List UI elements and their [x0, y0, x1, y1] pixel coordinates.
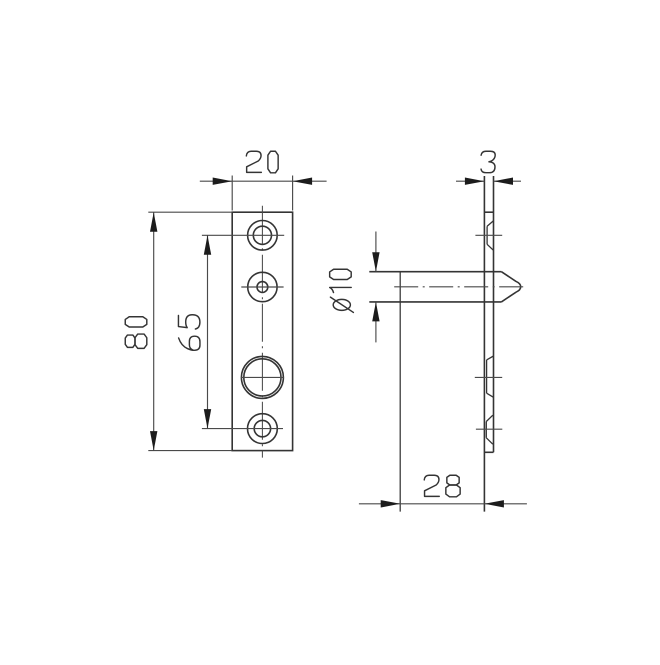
front view vertical centerline: [261, 206, 263, 458]
side H4 lower angled line: [486, 438, 493, 444]
hole H1 horizontal crosshair: [202, 234, 284, 236]
side H4 crosshair: [476, 428, 502, 430]
side view plate right edge: [493, 176, 495, 452]
dim 65 arrow top: [204, 235, 211, 255]
dim 65 dimension line: [207, 235, 209, 428]
dim d10 line lower: [375, 302, 377, 343]
dim text 80 (rotated): [125, 317, 147, 349]
dim 20 extension line right: [292, 176, 294, 211]
hole H3 large middle (outer circle): [241, 356, 283, 398]
dim 3 arrow left: [465, 178, 485, 185]
dim 20 arrow left: [213, 178, 233, 185]
front view plate outline: [232, 212, 292, 450]
dim d10 line upper: [375, 232, 377, 272]
hole H2 inner circle: [257, 282, 268, 293]
dim 28 dimension line: [359, 503, 527, 505]
dim 65 extension line top: [202, 234, 232, 236]
hole H4 countersunk bottom (outer circle): [248, 414, 278, 444]
hole H4 inner circle: [254, 420, 270, 436]
dim 20 arrow right: [293, 178, 313, 185]
dim 20 extension line left: [231, 176, 233, 211]
hole H1 countersunk top (outer circle): [248, 221, 278, 251]
hole H1 inner circle: [253, 226, 271, 244]
dim text 28: [424, 475, 460, 497]
side H1 crosshair: [475, 234, 502, 236]
dim 3 dimension line right tail: [494, 180, 522, 182]
side H4 bore line: [485, 422, 487, 438]
side H3 lower angled line: [487, 393, 494, 397]
dim text Ø10 (rotated): [330, 269, 354, 312]
dim text 3: [481, 151, 495, 172]
side H3 bore line: [486, 360, 488, 393]
dim 80 extension line bottom: [148, 450, 232, 452]
side view plate top edge: [484, 211, 493, 213]
side view plate left edge: [483, 176, 485, 512]
hole H4 horizontal crosshair: [202, 428, 283, 430]
dim 65 arrow bottom: [204, 409, 211, 429]
pin bullet nose: [501, 272, 520, 302]
hole H2 horizontal crosshair: [241, 286, 283, 288]
side H3 crosshair: [475, 376, 502, 378]
dim 28 arrow left: [381, 500, 401, 507]
dim 80 arrow top: [150, 212, 157, 232]
side H1 countersink lower angled line: [487, 244, 493, 250]
dim text 20: [246, 151, 278, 173]
dim 20 dimension line: [200, 180, 327, 182]
side view plate bottom edge: [484, 451, 493, 453]
side H3 upper angled line: [487, 356, 494, 360]
dim d10 arrow lower: [372, 302, 379, 322]
dim 3 arrow right: [494, 178, 514, 185]
hole H3 horizontal crosshair: [241, 376, 283, 378]
side H4 upper angled line: [486, 415, 493, 421]
hole H3 inner circle: [244, 359, 281, 396]
dim 80 extension line top: [148, 211, 232, 213]
pin left end line: [399, 272, 401, 512]
dim text 65 (rotated): [178, 315, 200, 351]
pin top edge: [369, 271, 501, 273]
dim 80 dimension line: [153, 212, 155, 450]
pin bottom edge: [369, 301, 501, 303]
dim d10 arrow upper: [372, 252, 379, 272]
side H1 bore line: [486, 226, 488, 244]
pin centerline: [394, 286, 524, 288]
dim 3 dimension line left tail: [456, 180, 484, 182]
side H1 countersink upper angled line: [487, 221, 493, 227]
hole H2 pin hole (outer circle): [248, 272, 277, 301]
dim 28 arrow right: [484, 500, 504, 507]
dim 80 arrow bottom: [150, 431, 157, 451]
